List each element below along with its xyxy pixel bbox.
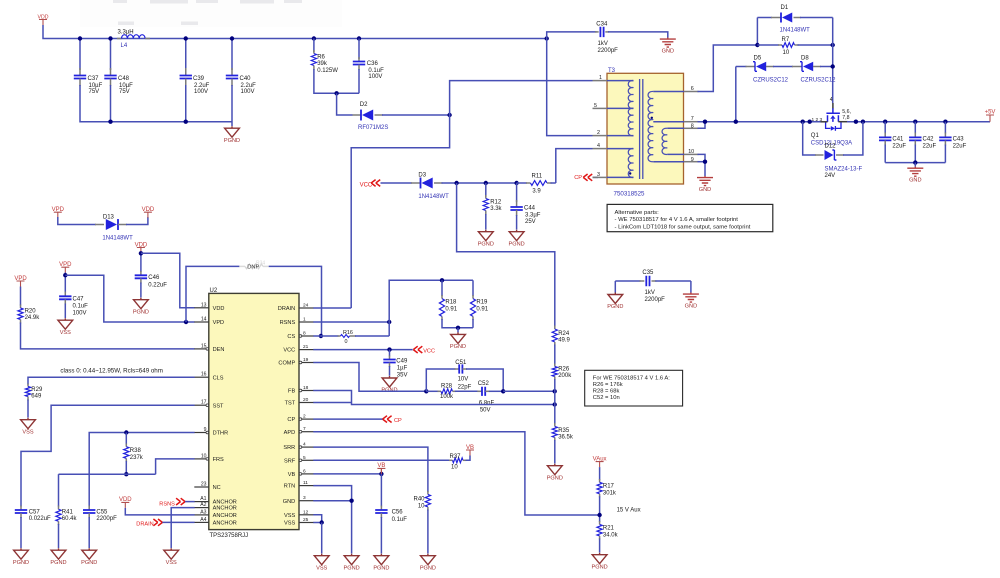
wire U2 pin A2 to VSS [171,508,194,548]
svg-text:2: 2 [597,130,600,136]
svg-text:D13: D13 [103,214,115,220]
svg-text:R20: R20 [25,308,37,314]
junction [597,513,601,517]
junction [943,120,947,124]
svg-text:D3: D3 [418,172,426,178]
svg-text:100k: 100k [440,394,454,400]
capacitor C57 [20,506,22,510]
capacitor C49 [389,350,391,357]
U2 pin 18 FB [299,390,314,392]
T3 core [640,79,643,179]
svg-text:R17: R17 [603,484,615,490]
svg-text:34.0k: 34.0k [603,533,619,539]
svg-text:C39: C39 [193,76,205,82]
wire VCC pin 21 [313,349,412,351]
svg-text:301k: 301k [603,491,617,497]
wire CLS [28,377,195,384]
svg-text:PGND: PGND [81,560,97,566]
svg-text:C52: C52 [478,381,490,387]
wire [442,319,473,328]
resistor R24 [554,326,556,330]
svg-text:DEN: DEN [213,347,225,353]
wire CP pin 2 [313,418,382,420]
svg-text:TST: TST [285,401,296,407]
wire [944,145,946,163]
ground PGND [608,293,623,304]
T3 pin 10 [684,153,699,155]
wire [599,467,601,480]
svg-text:VSS: VSS [284,513,295,519]
junction [501,389,505,393]
svg-text:C49: C49 [396,359,408,365]
capacitor C39 [185,68,187,75]
wire [381,182,413,184]
resistor R29 [27,384,29,387]
wire [466,456,471,461]
T3 pin 5 [593,107,608,109]
svg-text:SMAZ24-13-F: SMAZ24-13-F [825,167,863,173]
svg-text:R28 = 68k: R28 = 68k [593,389,620,395]
svg-text:19: 19 [303,357,309,363]
wire [186,266,239,322]
U2 pin 16 CLS [194,376,209,378]
svg-text:2: 2 [303,414,306,420]
U2 pin 23 NC [194,486,209,488]
T3 pin 4 [593,148,608,150]
svg-text:PGND: PGND [50,560,66,566]
svg-text:C35: C35 [642,270,654,276]
resistor R16 [321,335,339,337]
svg-text:R29: R29 [31,387,43,393]
T3 secondary winding 8-10 [667,127,684,129]
capacitor C52 [455,390,478,392]
wire R11 to T3 pin 4 [556,149,593,183]
junction [63,273,67,277]
junction [440,278,444,282]
ground GND [907,167,923,177]
junction [108,36,112,40]
wire [185,85,187,122]
svg-text:L4: L4 [121,43,128,49]
svg-text:2200pF: 2200pF [645,297,666,303]
T3 pin 9 [684,161,699,163]
zener diode D5 [736,66,747,68]
capacitor C44 [516,200,518,207]
junction [913,120,917,124]
capacitor C51 [455,368,460,370]
junction [78,36,82,40]
wire [599,496,601,522]
wire [547,32,597,39]
junction [454,181,458,185]
svg-text:VSS: VSS [22,429,33,435]
wire [389,366,391,376]
junction [320,520,324,524]
capacitor C56 [380,474,382,507]
wire FB pin 18 and TST pin 20 [313,391,554,405]
diode D1 [757,17,772,19]
U2 pin 5 SRF [299,459,314,461]
wire [58,217,96,225]
svg-text:750318525: 750318525 [614,191,646,198]
wire [126,217,148,225]
svg-text:649: 649 [31,394,42,400]
svg-text:RSNS: RSNS [159,501,175,507]
junction [387,347,391,351]
U2 pin 8 CS [299,335,314,337]
svg-text:GND: GND [909,177,921,183]
wire [110,85,112,122]
svg-text:PGND: PGND [420,565,436,571]
wire [442,182,517,184]
svg-text:49.9: 49.9 [558,338,570,344]
svg-text:D2: D2 [360,102,368,108]
T3 pin 2 [593,135,608,137]
wire [162,521,194,523]
wire [832,18,834,104]
wire [64,273,66,293]
junction [312,36,316,40]
svg-text:A2: A2 [200,502,206,508]
svg-text:ANCHOR: ANCHOR [213,513,237,519]
svg-text:24.9k: 24.9k [25,315,41,321]
net label VCC [413,346,422,353]
wire comp network top branch [426,369,455,391]
wire [516,215,518,230]
wire [847,121,990,123]
svg-text:5: 5 [303,455,306,461]
svg-text:1N4148WT: 1N4148WT [102,236,133,242]
wire [58,474,60,506]
junction [447,113,451,117]
T3 secondary tap pin 7 [653,121,684,123]
wire [27,400,29,418]
U2 pin 9 DTHR [194,432,209,434]
wire DTHR [89,433,194,507]
svg-text:R26 = 176k: R26 = 176k [593,382,623,388]
ground PGND [451,332,466,343]
svg-text:6: 6 [303,468,306,474]
svg-text:For WE 750318517 4 V 1.6 A:: For WE 750318517 4 V 1.6 A: [593,375,670,381]
svg-text:R21: R21 [603,526,615,532]
resistor R6 [313,50,315,54]
svg-text:5: 5 [594,103,597,109]
wire [314,69,359,93]
junction [184,320,188,324]
svg-text:12: 12 [303,509,309,515]
wire [43,25,547,39]
wire [79,39,81,71]
T3 pin 8 [684,127,699,129]
wire RSNS pin 1 [313,321,389,323]
junction [801,120,805,124]
net label CP [383,416,392,423]
wire [358,39,360,60]
wire SRF pin 5 [313,459,450,461]
svg-text:4: 4 [303,442,306,448]
wire [110,39,112,71]
wire SST [21,405,195,506]
svg-text:CS: CS [287,334,295,340]
wire [457,328,459,333]
junction [334,91,338,95]
ground PGND [421,554,436,565]
ground PGND [382,376,397,387]
svg-text:SRF: SRF [284,458,296,464]
wire T3 pin 6 up to gate drive [698,45,758,92]
svg-text:DNP: DNP [247,265,259,271]
wire [185,501,195,503]
svg-text:0.125W: 0.125W [317,68,338,74]
svg-text:VPD: VPD [213,320,225,326]
wire [427,510,429,554]
junction [755,43,759,47]
svg-text:25: 25 [303,517,309,523]
note box WE 750318517 values [585,370,683,406]
junction [139,251,143,255]
svg-text:100V: 100V [73,310,87,316]
svg-text:10: 10 [688,149,694,155]
svg-text:R26: R26 [558,366,570,372]
resistor R12 [485,183,487,197]
svg-text:A3: A3 [200,509,206,515]
U2 pin 11 RTN [299,485,314,487]
junction [357,36,361,40]
wire [125,461,127,474]
svg-text:D12: D12 [825,143,837,149]
U2 pin 1 RSNS [299,321,314,323]
svg-text:PGND: PGND [607,304,623,310]
svg-text:Alternative parts:: Alternative parts: [615,210,660,216]
svg-text:GND: GND [699,187,711,193]
svg-text:PGND: PGND [224,138,240,144]
junction [349,499,353,503]
svg-text:R38: R38 [130,448,142,454]
svg-text:C36: C36 [367,61,379,67]
svg-text:class 0: 0.44~12.95W, Rcls=649: class 0: 0.44~12.95W, Rcls=649 ohm [60,367,162,374]
wire [58,524,60,548]
ground PGND [51,548,66,559]
resistor R19 [472,280,474,296]
svg-text:VSS: VSS [284,521,295,527]
svg-text:4: 4 [830,97,833,103]
U2 pin 20 TST [299,402,314,404]
svg-text:D8: D8 [801,55,809,61]
U2 pin 13 VDD [194,307,209,309]
capacitor C40 [231,68,233,75]
wire [554,345,556,365]
svg-text:RF071M2S: RF071M2S [358,125,388,131]
svg-text:C41: C41 [892,137,904,143]
svg-text:75V: 75V [89,89,100,95]
svg-text:0.91: 0.91 [476,306,488,312]
svg-text:C48: C48 [118,76,130,82]
ground GND [683,293,699,303]
svg-text:2200pF: 2200pF [598,48,619,54]
svg-text:R41: R41 [62,509,74,515]
svg-text:15 V Aux: 15 V Aux [617,508,641,514]
svg-text:APD: APD [284,430,296,436]
junction [230,36,234,40]
junction [456,326,460,330]
resistor R25 DNP [239,265,245,267]
svg-text:22uF: 22uF [892,144,906,150]
T3 primary winding 5-2 [628,108,633,135]
junction [387,320,391,324]
resistor R37 [449,459,453,461]
ground PGND [344,554,359,565]
svg-text:C43: C43 [953,137,965,143]
wire to R24 divider [457,183,555,327]
zener diode D12 [803,122,816,155]
resistor R18 [441,280,443,296]
svg-text:PGND: PGND [509,241,525,247]
svg-text:C55: C55 [96,509,108,515]
svg-text:- LinkCom LDT1018 for same out: - LinkCom LDT1018 for same output, same … [615,224,751,230]
diode D13 [95,224,104,226]
svg-text:1kV: 1kV [598,41,608,47]
wire [885,162,945,164]
svg-text:NC: NC [213,485,221,491]
U2 pin 17 SST [194,404,209,406]
wire [321,523,323,554]
ground PGND [374,554,389,565]
junction [184,36,188,40]
ground GND [697,176,713,186]
svg-text:9: 9 [691,157,694,163]
svg-text:0.1uF: 0.1uF [73,303,89,309]
svg-text:6.8nF: 6.8nF [479,400,495,406]
svg-text:GND: GND [662,48,674,54]
wire [337,93,353,115]
svg-text:C51: C51 [455,360,467,366]
svg-text:10: 10 [451,464,458,470]
U2 pin 2 CP [299,418,314,420]
svg-text:4: 4 [597,143,600,149]
capacitor C55 [88,506,90,510]
resistor R35 [554,423,556,426]
svg-text:200k: 200k [558,373,572,379]
svg-text:60.4k: 60.4k [62,516,78,522]
wire [140,253,142,273]
ground PGND [225,126,240,137]
svg-text:C57: C57 [29,509,41,515]
wire [608,32,668,38]
wire DNP to CS [269,266,322,336]
wire [20,517,22,548]
resistor R20 [20,305,22,309]
svg-text:TPS23758RJJ: TPS23758RJJ [210,533,249,539]
svg-text:R35: R35 [558,428,570,434]
svg-text:FB: FB [288,389,295,395]
capacitor C37 [79,69,81,70]
wire T3 pins 7-8 junction [698,121,821,123]
svg-text:PGND: PGND [450,344,466,350]
svg-text:35V: 35V [397,372,408,378]
svg-text:22pF: 22pF [458,384,472,390]
wire [313,39,315,53]
svg-text:3.3µH: 3.3µH [118,30,134,36]
wire DRAIN pin 24 [313,307,351,309]
wire VPD to U2 pin 14 [65,275,194,322]
svg-text:CP: CP [394,418,402,424]
U2 pin 21 VCC [299,349,314,351]
wire T3 pin 2 from VDD rail [547,39,593,136]
junction [545,36,549,40]
svg-text:Q1: Q1 [811,133,820,139]
wire [80,85,232,122]
ground PGND [547,464,562,475]
ground VSS [164,548,179,559]
junction [883,120,887,124]
svg-text:50V: 50V [480,407,491,413]
svg-text:CZRUS2C12: CZRUS2C12 [753,77,789,83]
wire [380,517,382,554]
resistor R41 [58,506,60,510]
svg-text:1µF: 1µF [397,366,408,372]
ground PGND [592,553,607,564]
svg-text:R24: R24 [558,331,570,337]
ground VSS [21,418,36,429]
capacitor C41 [884,133,886,138]
junction [379,472,383,476]
wire [914,163,916,167]
svg-text:R37: R37 [450,454,462,460]
U2 pin 3 GND [299,500,314,502]
svg-text:75V: 75V [119,89,130,95]
wire R20 to U2 pin 15 DEN [21,323,195,349]
svg-text:CP: CP [574,175,582,181]
svg-text:10V: 10V [458,377,469,383]
svg-text:CLS: CLS [213,375,224,381]
T3 primary winding 1-5 [607,80,634,82]
wire [358,69,360,93]
wire T3 pins 9-10 to GND [698,161,706,163]
junction [553,402,557,406]
svg-text:R19: R19 [476,300,488,306]
svg-text:VB: VB [288,472,296,478]
junction [124,430,128,434]
svg-text:D5: D5 [754,55,762,61]
capacitor C46 [140,271,142,275]
svg-text:3: 3 [303,495,306,501]
svg-text:R28: R28 [441,383,453,389]
wire [614,281,616,293]
svg-text:CP: CP [287,417,295,423]
svg-text:C34: C34 [596,22,608,28]
svg-text:R7: R7 [782,37,790,43]
capacitor C36 [358,57,360,61]
svg-text:3: 3 [597,172,600,178]
svg-text:T3: T3 [608,68,616,74]
U2 pin 25 VSS [299,522,314,524]
wire [914,122,916,134]
svg-text:5,6,: 5,6, [842,109,851,115]
op-amp U2 TPS23758RJJ body [209,293,299,529]
svg-text:0.22uF: 0.22uF [148,282,167,288]
wire VDD to U2 pin 13 [141,253,195,307]
svg-text:VSS: VSS [316,565,327,571]
transformer T3 body [607,73,684,184]
resistor R7 [757,44,779,46]
resistor R38 [125,433,127,445]
wire CS pin 8 [313,335,323,337]
svg-text:RTN: RTN [284,484,295,490]
svg-text:ANCHOR: ANCHOR [213,521,237,527]
svg-text:RSNS: RSNS [280,320,296,326]
svg-text:3.3k: 3.3k [490,206,502,212]
wire [382,114,450,116]
